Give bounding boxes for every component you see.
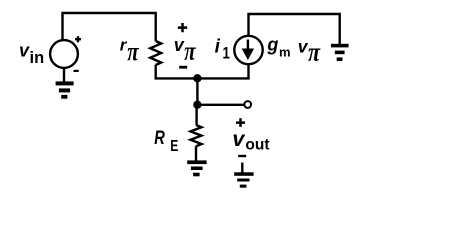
svg-text:m: m [279, 45, 291, 60]
svg-text:π: π [308, 39, 321, 67]
svg-text:π: π [127, 38, 139, 67]
svg-text:v: v [174, 35, 185, 55]
svg-text:g: g [266, 34, 278, 54]
svg-text:1: 1 [223, 44, 230, 63]
svg-text:in: in [30, 49, 45, 67]
svg-text:v: v [19, 40, 30, 60]
svg-text:i: i [215, 36, 221, 57]
svg-text:π: π [184, 38, 196, 67]
svg-text:v: v [232, 127, 245, 151]
svg-text:E: E [170, 137, 178, 155]
svg-text:R: R [154, 127, 165, 148]
svg-text:out: out [245, 136, 269, 153]
svg-text:v: v [298, 36, 309, 56]
